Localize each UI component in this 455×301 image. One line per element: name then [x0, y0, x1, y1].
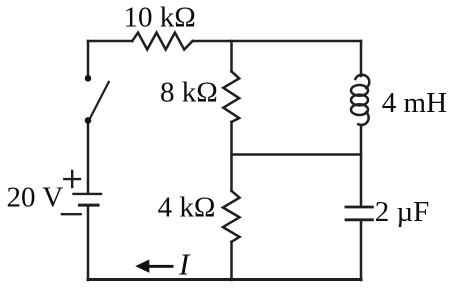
battery negative plate (short): [80, 204, 99, 207]
wire left top (corner to switch): [87, 41, 90, 78]
svg-text:8 kΩ: 8 kΩ: [160, 77, 218, 109]
inductor 4 mH coil: [351, 75, 369, 125]
svg-text:I: I: [178, 247, 191, 282]
svg-text:4 mH: 4 mH: [382, 87, 447, 119]
wire right upper (corner to inductor): [360, 41, 363, 76]
wire middle horizontal: [232, 153, 362, 156]
svg-text:4 kΩ: 4 kΩ: [158, 191, 216, 223]
wire top-left segment: [88, 40, 132, 43]
switch blade: [90, 82, 109, 120]
switch node dot bottom: [85, 117, 92, 124]
wire bottom: [88, 278, 361, 281]
svg-text:10 kΩ: 10 kΩ: [124, 2, 196, 34]
battery plus sign: [64, 171, 80, 187]
resistor 8 kOhm zigzag: [223, 71, 239, 122]
current arrow I: [135, 260, 173, 273]
switch node dot top: [85, 75, 92, 82]
resistor 10 kOhm zigzag: [132, 33, 192, 50]
battery minus sign: [62, 213, 81, 215]
resistor 4 kOhm zigzag: [223, 191, 240, 242]
capacitor 2 uF plates: [346, 207, 372, 220]
wire left bottom (battery to bottom wire): [87, 207, 90, 281]
battery positive plate (long): [74, 193, 102, 195]
wire right middle (inductor to capacitor): [360, 125, 363, 206]
wire middle branch upper: [230, 41, 233, 71]
wire left middle (switch to battery): [87, 121, 90, 192]
wire middle branch lower: [230, 242, 233, 280]
wire top-right segment: [193, 40, 361, 43]
wire middle branch center: [230, 122, 233, 191]
svg-text:20 V: 20 V: [7, 182, 64, 214]
wire right lower (capacitor to bottom): [360, 221, 363, 280]
svg-text:2 µF: 2 µF: [375, 196, 430, 228]
